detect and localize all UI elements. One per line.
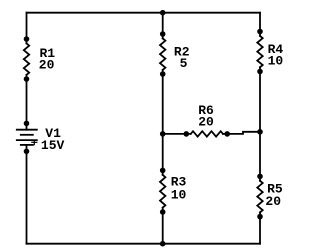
svg-text:5: 5 [180,56,188,71]
node V1 bottom terminal [24,149,30,155]
node R5 bottom terminal [257,214,263,220]
wire bottom edge [27,243,261,245]
node R2 bottom terminal [160,71,166,77]
wire top edge [27,12,261,14]
node R1 top terminal [24,36,30,42]
svg-text:20: 20 [265,194,281,209]
wire right edge upper [259,13,261,36]
svg-text:20: 20 [39,58,55,73]
node R3 bottom terminal [160,209,166,215]
node R6 right terminal [224,131,230,137]
node R6 middle junction [160,131,166,137]
node R4 bottom terminal [257,69,263,75]
battery V1 [17,130,37,145]
svg-text:10: 10 [171,187,187,202]
wire middle lower [162,208,164,244]
node R2 top terminal [160,31,166,37]
wire middle upper [162,13,164,39]
wire left edge upper [26,13,28,44]
wire right edge lower [259,212,261,243]
resistor R2 [160,38,165,70]
node R6 right edge junction [257,129,263,135]
battery plus sign [32,140,37,144]
resistor R6 [191,131,223,136]
resistor R3 [160,175,165,208]
node bottom middle junction [160,241,166,247]
svg-text:20: 20 [198,115,214,130]
node R1 bottom terminal [24,76,30,82]
node top middle junction [160,10,166,16]
wire left edge between R1 and V1 [26,75,28,130]
resistor R1 [24,43,29,75]
wire R6 left segment [163,133,191,135]
wire left edge lower [26,145,28,244]
wire right edge between R4 and R5 [259,67,261,181]
svg-text:10: 10 [268,54,284,69]
node R4 top terminal [257,29,263,35]
node V1 top terminal [24,121,30,127]
node R6 left terminal [184,131,190,137]
wire middle between R2 and R3 [162,70,164,175]
resistor R4 [257,36,262,67]
node R3 top terminal [160,168,166,174]
node R5 top terminal [257,174,263,180]
wire R6 right segment with jog [223,132,260,134]
resistor R5 [257,181,262,213]
svg-text:15V: 15V [41,138,65,153]
